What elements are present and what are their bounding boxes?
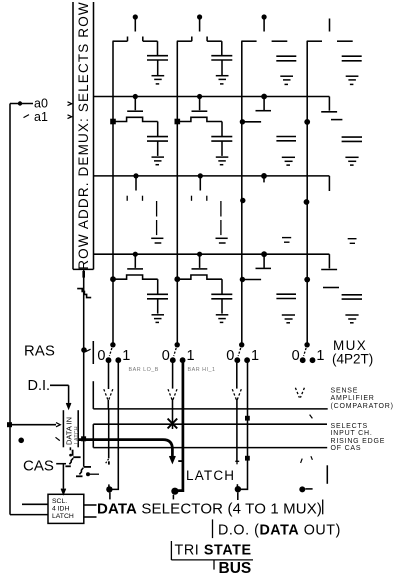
row address demux box U1 xyxy=(73,1,94,269)
op-amp sense amplifier A3 col3 xyxy=(232,389,241,399)
wire col3 throw-1 line xyxy=(241,363,250,490)
wire col3 throw-0 line xyxy=(235,363,239,465)
ground row1 col2 xyxy=(216,76,229,84)
wire col1 throw-1 line xyxy=(111,363,118,490)
transistor Q31 row3 col1 (faded) xyxy=(127,173,142,201)
svg-text:OF CAS: OF CAS xyxy=(331,445,362,452)
svg-text:AMPLIFIER: AMPLIFIER xyxy=(331,395,375,402)
svg-text:0: 0 xyxy=(162,348,170,364)
ground row3 col3 xyxy=(282,238,291,243)
switch S4 column mux pole 4 xyxy=(300,342,316,363)
wire RAS contact bar xyxy=(92,341,94,364)
transistor Q34 row3 col4 (faded) xyxy=(304,176,330,205)
label SENSE AMPLIFIER (COMPARATOR) xyxy=(331,388,394,410)
label DATA SELECTOR (4 TO 1 MUX) xyxy=(97,500,323,518)
wire D.O. stub xyxy=(212,519,214,538)
node a0 input wire xyxy=(10,101,33,105)
wire bit line column 1 xyxy=(112,41,114,342)
transistor Q42 row4 col2 xyxy=(174,252,222,283)
svg-text:1: 1 xyxy=(316,348,324,364)
svg-text:D.O. (DATA OUT): D.O. (DATA OUT) xyxy=(218,523,341,539)
capacitor C31 row3 col1 (faded) xyxy=(156,201,158,235)
switch S3 column mux pole 3 xyxy=(234,342,250,363)
wire col1 throw-0 line xyxy=(107,363,109,459)
wire data thick output xyxy=(78,436,175,462)
ground row1 col4 xyxy=(346,76,359,84)
node thick line top tick xyxy=(178,460,183,462)
svg-text:4 IDH: 4 IDH xyxy=(52,506,69,513)
wire left bus corner xyxy=(10,514,48,516)
capacitor C21 row2 col1 xyxy=(147,122,168,156)
ground row1 col1 xyxy=(152,76,165,84)
transistor Q12 row1 col2 xyxy=(177,14,222,41)
svg-text:RAS: RAS xyxy=(24,344,55,360)
switch CAS S-A (data-in) xyxy=(65,447,80,466)
switch CAS S-B (demux line) xyxy=(76,467,99,476)
switch CAS col4 (faded) xyxy=(301,456,313,463)
svg-text:INPUT CH.: INPUT CH. xyxy=(331,430,373,437)
op-amp sense amplifier A2 col2 xyxy=(168,389,177,399)
svg-text:DATA IN: DATA IN xyxy=(65,417,74,445)
latch box U3 xyxy=(48,494,84,523)
transistor Q11 row1 col1 xyxy=(113,14,158,41)
wire CAS stub xyxy=(56,463,66,465)
wire data-in feed line xyxy=(7,422,60,427)
svg-text:BUS: BUS xyxy=(219,560,252,577)
wire bit line column 2 xyxy=(176,41,178,342)
switch S1 column mux pole 1 xyxy=(106,342,122,363)
switch S0 (below demux) xyxy=(77,289,91,298)
svg-text:ROW ADDR. DEMUX: SELECTS ROW: ROW ADDR. DEMUX: SELECTS ROW xyxy=(76,1,91,269)
transistor Q32 row3 col2 (faded) xyxy=(192,173,207,201)
svg-text:1: 1 xyxy=(122,348,130,364)
svg-text:LATCH: LATCH xyxy=(186,468,235,483)
transistor Q21 row2 col1 xyxy=(110,94,158,124)
svg-text:DATA SELECTOR (4 TO 1 MUX): DATA SELECTOR (4 TO 1 MUX) xyxy=(97,501,322,518)
transistor Q23 row2 col3 (partial) xyxy=(240,94,271,125)
op-amp sense amplifier A1 col1 xyxy=(104,389,113,399)
wire bit line column 4 xyxy=(306,41,308,343)
arrow a0 into demux xyxy=(68,102,72,106)
ground row1 col3 xyxy=(280,76,293,84)
wire clock bus (bottom) xyxy=(93,447,327,449)
wire col3 selector input xyxy=(235,484,241,500)
node tick near selects xyxy=(310,415,313,419)
transistor Q22 row2 col2 xyxy=(175,94,223,124)
transistor Q41 row4 col1 xyxy=(110,252,158,283)
capacitor C22 row2 col2 xyxy=(211,122,232,156)
node X write junction xyxy=(168,419,178,429)
wire col2 throw-1 line (selected, bold) xyxy=(171,362,183,499)
svg-text:D.I.: D.I. xyxy=(28,378,51,394)
data-in latch U2 xyxy=(63,410,80,447)
svg-text:0: 0 xyxy=(292,348,300,364)
svg-text:TRI STATE: TRI STATE xyxy=(175,542,252,558)
wire bus stub xyxy=(213,560,215,569)
ground row3 col4 xyxy=(348,239,357,244)
ground row2 col4 xyxy=(345,157,358,165)
ground row4 col1 xyxy=(152,315,165,323)
ground row3 col1 xyxy=(151,238,163,243)
capacitor C42 row4 col2 xyxy=(211,279,232,313)
wire bit line column 3 xyxy=(241,41,243,343)
node tick left of latch xyxy=(56,437,60,440)
svg-text:a0: a0 xyxy=(34,97,48,111)
ground row2 col2 xyxy=(216,157,229,165)
wire sense bus (top) xyxy=(93,381,327,409)
wire bus underline xyxy=(171,559,253,561)
capacitor C24 row2 col4 (partial) xyxy=(342,137,362,141)
transistor Q14 row1 col4 xyxy=(307,19,353,42)
arrow a1 into demux xyxy=(68,115,72,119)
wire left bus vertical xyxy=(9,104,11,515)
wire col2 throw-0 line xyxy=(172,363,174,429)
wire col1 selector input xyxy=(106,484,112,499)
svg-text:BAR LO_B: BAR LO_B xyxy=(129,367,159,373)
svg-text:0: 0 xyxy=(97,348,105,364)
svg-text:CAS: CAS xyxy=(23,458,54,475)
svg-text:SCL.: SCL. xyxy=(52,498,67,505)
label SELECTS INPUT CH RISING EDGE OF CAS xyxy=(331,423,386,452)
op-amp sense amplifier A4 col4 xyxy=(295,388,304,398)
wire select bus (middle) xyxy=(93,424,327,447)
node stray junction dot xyxy=(18,438,24,444)
svg-text:BAR HI_1: BAR HI_1 xyxy=(188,367,216,373)
wire demux select line xyxy=(83,269,85,466)
wire latch box outputs xyxy=(84,505,97,517)
svg-text:1: 1 xyxy=(187,348,195,364)
capacitor C14 row1 col4 xyxy=(342,56,362,61)
svg-text:SENSE: SENSE xyxy=(331,388,359,395)
label MUX (4P2T) xyxy=(332,338,373,367)
capacitor C44 row4 col4 (partial) xyxy=(342,295,362,299)
wire into latch box xyxy=(22,503,48,505)
transistor Q44 row4 col4 (partial) xyxy=(304,254,339,287)
ground row2 col3 xyxy=(282,157,295,165)
ground row4 col2 xyxy=(216,315,229,323)
transistor Q24 row2 col4 (partial) xyxy=(304,97,342,125)
svg-text:0: 0 xyxy=(226,348,234,364)
capacitor C11 row1 col1 xyxy=(147,41,168,75)
wire tri-state stub xyxy=(170,541,172,560)
capacitor C43 row4 col3 (partial) xyxy=(276,294,296,298)
svg-text:LATCH: LATCH xyxy=(52,513,74,520)
svg-text:(4P2T): (4P2T) xyxy=(332,352,373,367)
ground row4 col4 xyxy=(345,315,358,323)
wire row word line 3 xyxy=(94,175,330,177)
wire row word line 4 xyxy=(94,253,330,255)
transistor Q13 row1 col3 xyxy=(241,14,287,41)
ground row2 col1 xyxy=(152,157,165,165)
svg-text:a1: a1 xyxy=(34,110,48,124)
transistor Q43 row4 col3 (partial) xyxy=(240,251,271,282)
capacitor C12 row1 col2 xyxy=(211,41,232,75)
capacitor C32 row3 col2 (faded) xyxy=(220,201,222,235)
wire CAS to latch box xyxy=(61,464,65,494)
switch CAS col1 (faded) xyxy=(106,459,109,465)
label a1 xyxy=(24,110,48,124)
capacitor C13 row1 col3 xyxy=(276,56,296,61)
switch RAS S-RAS lever xyxy=(81,347,90,353)
ground row4 col3 xyxy=(282,315,295,323)
svg-text:(COMPARATOR): (COMPARATOR) xyxy=(331,403,394,410)
wire row word line 2 xyxy=(94,96,330,98)
wire col4 stub xyxy=(326,465,328,484)
capacitor C41 row4 col1 xyxy=(147,279,168,313)
wire col4 selector input xyxy=(299,486,312,492)
transistor Q33 row3 col3 (faded) xyxy=(240,173,267,203)
svg-text:LATCH: LATCH xyxy=(74,426,80,444)
svg-text:1: 1 xyxy=(251,348,259,364)
wire D.I. to data-in latch xyxy=(50,385,71,408)
ground row3 col2 xyxy=(216,238,228,243)
capacitor C23 row2 col3 (partial) xyxy=(276,137,296,141)
switch S2 column mux pole 2 xyxy=(170,342,186,363)
